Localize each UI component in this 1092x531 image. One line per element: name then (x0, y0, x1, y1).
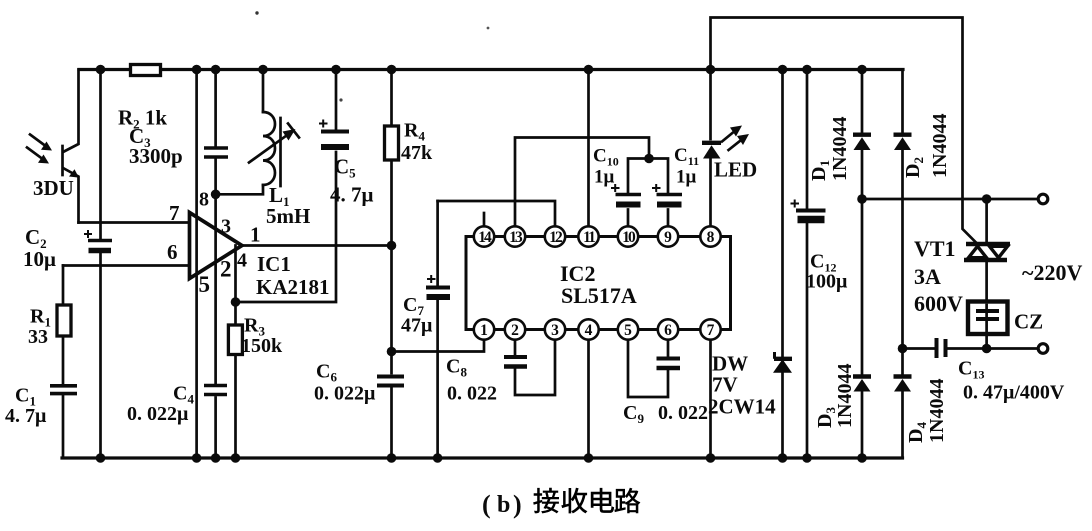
capacitor C13 0.47u/400V (935, 338, 939, 358)
terminal upper right (1038, 194, 1048, 204)
svg-text:1μ: 1μ (594, 167, 615, 188)
resistor R3 150k (228, 325, 242, 355)
svg-text:4. 7μ: 4. 7μ (5, 405, 47, 427)
svg-text:7V: 7V (712, 373, 738, 397)
svg-text:b: b (497, 492, 510, 518)
svg-text:100μ: 100μ (806, 271, 848, 293)
svg-text:0. 022μ: 0. 022μ (127, 403, 189, 425)
IC2 pin 1 (474, 319, 494, 339)
wire IC1 pin6 input (63, 264, 190, 267)
svg-text:2: 2 (511, 322, 519, 339)
svg-text:4: 4 (237, 250, 247, 272)
svg-text:1N4044: 1N4044 (926, 379, 948, 443)
svg-text:5: 5 (199, 272, 211, 297)
svg-text:8: 8 (707, 229, 715, 246)
wire AC node line y=348.5 (903, 347, 1038, 350)
caption char 电 (591, 488, 614, 513)
capacitor C7 47u electrolytic branch x=437.6 (436, 201, 439, 458)
svg-text:7: 7 (707, 322, 715, 339)
junction dot rail/C2 (96, 65, 106, 75)
svg-text:1N4044: 1N4044 (829, 117, 851, 181)
svg-text:47μ: 47μ (401, 315, 433, 337)
diode D2 1N4044 branch x=902.5 (901, 70, 904, 459)
svg-text:(: ( (482, 490, 491, 519)
svg-text:7: 7 (169, 201, 180, 225)
capacitor C9 0.022 between pins 5 and 6 (628, 340, 668, 397)
IC2 pin 4 (578, 319, 598, 339)
resistor R4 47k branch x=391.5 (390, 70, 393, 459)
svg-text:3: 3 (551, 322, 559, 339)
svg-text:4. 7μ: 4. 7μ (330, 183, 374, 207)
wire C7 top to IC2 pin12 (438, 201, 555, 226)
wire IC2 pin13 to C10/C11 bus (515, 138, 668, 227)
svg-text:3300p: 3300p (129, 144, 183, 168)
capacitor C12 100u electrolytic branch x=807 (806, 70, 809, 459)
caption char 收 (561, 488, 587, 514)
IC2 pin 8 (700, 226, 720, 246)
svg-text:6: 6 (167, 240, 178, 264)
socket CZ (968, 302, 1008, 335)
wire IC2 pin1 to C6 node (392, 340, 485, 352)
caption char 路 (614, 488, 640, 514)
svg-text:1N4044: 1N4044 (834, 364, 856, 428)
svg-text:0. 022: 0. 022 (658, 402, 708, 424)
capacitor C8 0.022 between pins 2 and 3 (515, 340, 555, 395)
svg-text:3DU: 3DU (33, 176, 74, 200)
diode D4 1N4044 (894, 374, 912, 378)
svg-text:0. 47μ/400V: 0. 47μ/400V (963, 382, 1065, 404)
svg-text:LED: LED (714, 158, 757, 182)
wire IC1 pin7 input (79, 221, 190, 224)
IC2 pin 11 (578, 226, 598, 246)
svg-text:3: 3 (221, 216, 231, 238)
wire vertical x=196.6 (IC1 pins 8/5 line) (195, 70, 198, 459)
svg-text:5: 5 (624, 322, 632, 339)
wire IC2 pin4 to ground rail (587, 340, 590, 458)
capacitor C10 1u (616, 193, 642, 196)
svg-text:600V: 600V (914, 291, 963, 316)
capacitor C11 1u (657, 193, 683, 196)
capacitor C6 0.022u (377, 375, 404, 379)
junction dot AC node 2 (898, 344, 908, 354)
svg-text:5mH: 5mH (266, 204, 310, 228)
triac VT1 (985, 199, 988, 349)
terminal lower right (1038, 344, 1048, 354)
svg-text:9: 9 (664, 229, 672, 246)
svg-text:3A: 3A (914, 264, 941, 289)
wire top-right link y=17.5 (711, 18, 977, 243)
IC2 pin 14 (474, 226, 494, 246)
IC2 pin 10 (618, 226, 638, 246)
capacitor C4 0.022u (204, 384, 227, 388)
svg-text:~220V: ~220V (1022, 260, 1082, 285)
resistor R1 33 (62, 266, 65, 385)
wire top supply rail y=69.5 (79, 68, 903, 71)
svg-text:KA2181: KA2181 (256, 275, 330, 299)
svg-text:1: 1 (480, 322, 488, 339)
caption char 接 (533, 488, 559, 514)
svg-text:VT1: VT1 (914, 236, 956, 261)
IC2 pin 6 (658, 319, 678, 339)
wire IC1 output to R4 node (242, 244, 392, 247)
scan speck (255, 11, 258, 14)
wire C5 branch to R3 node (236, 70, 337, 303)
capacitor C2 10u (99, 70, 102, 459)
svg-text:10μ: 10μ (23, 247, 56, 271)
LED with pin8 line (709, 159, 712, 227)
svg-text:0. 022: 0. 022 (447, 383, 497, 405)
svg-text:33: 33 (28, 326, 48, 348)
transistor Q 3DU phototransistor (64, 70, 79, 223)
IC2 pin 7 (700, 319, 720, 339)
svg-text:1: 1 (250, 223, 261, 247)
wire R3 branch x=235.5 (234, 246, 237, 459)
capacitor C1 4.7u (62, 395, 65, 458)
resistor R2 1k in rail (131, 65, 161, 76)
diode DW zener 2CW14 branch x=782.5 (781, 70, 784, 459)
svg-text:0. 022μ: 0. 022μ (314, 383, 376, 405)
IC2 pin 5 (618, 319, 638, 339)
IC2 pin 12 (545, 226, 565, 246)
wire bottom ground rail y=458 (62, 456, 903, 459)
IC2 pin 2 (505, 319, 525, 339)
diode D3 1N4044 (853, 374, 871, 378)
svg-text:150k: 150k (241, 335, 283, 357)
svg-text:47k: 47k (401, 142, 433, 164)
svg-text:CZ: CZ (1014, 310, 1043, 334)
svg-text:1N4044: 1N4044 (929, 114, 951, 178)
capacitor C3 3300p on x=215.6 line (214, 70, 217, 459)
svg-text:2: 2 (220, 257, 232, 282)
IC2 pin 13 (505, 226, 525, 246)
inductor L1 5mH adjustable (262, 70, 265, 113)
IC2 SL517A body (466, 237, 731, 330)
wire IC2 pin11 to rail (587, 70, 590, 227)
svg-text:): ) (513, 490, 522, 519)
svg-text:4: 4 (585, 322, 593, 339)
op-amp U IC1 KA2181 triangle (190, 213, 243, 279)
svg-text:2CW14: 2CW14 (708, 395, 776, 419)
wire IC2 pin14 stub (483, 213, 486, 226)
IC2 pin 3 (545, 319, 565, 339)
junction dot L1 return (211, 190, 221, 200)
wire IC2 pin7 to ground rail (709, 340, 712, 458)
svg-text:11: 11 (583, 229, 595, 246)
diode D1 1N4044 (861, 70, 864, 459)
IC2 pin 9 (658, 226, 678, 246)
svg-text:6: 6 (664, 322, 672, 339)
junction dot AC node 1 (857, 194, 867, 204)
wire AC node line y=199 to terminal (862, 198, 1038, 201)
svg-text:SL517A: SL517A (561, 283, 637, 308)
svg-text:8: 8 (199, 189, 209, 211)
svg-text:IC1: IC1 (257, 252, 291, 276)
svg-text:1μ: 1μ (676, 167, 697, 188)
capacitor C5 4.7u electrolytic (321, 130, 349, 134)
